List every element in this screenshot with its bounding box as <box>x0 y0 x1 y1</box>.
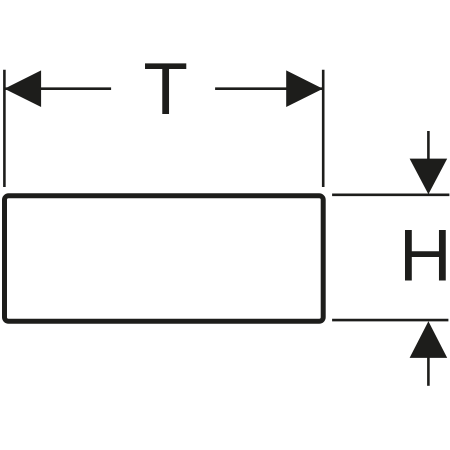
wire left extension line of T dimension <box>3 70 6 187</box>
svg-text:H: H <box>399 216 450 297</box>
wire top extension line of H dimension <box>332 194 449 197</box>
wire right extension line of T dimension <box>322 70 325 187</box>
wire upper leader line of H dimension <box>427 131 430 160</box>
wire lower leader line of H dimension <box>427 356 430 386</box>
wire T dimension line left segment <box>4 87 111 90</box>
node top arrowhead of H dimension <box>410 159 448 195</box>
svg-text:T: T <box>143 49 188 130</box>
node rectangle body outline <box>5 196 324 321</box>
wire bottom extension line of H dimension <box>332 319 448 322</box>
node bottom arrowhead of H dimension <box>410 321 448 358</box>
wire T dimension line right segment <box>215 87 323 90</box>
node right arrowhead of T dimension <box>286 70 323 107</box>
node left arrowhead of T dimension <box>4 70 41 107</box>
